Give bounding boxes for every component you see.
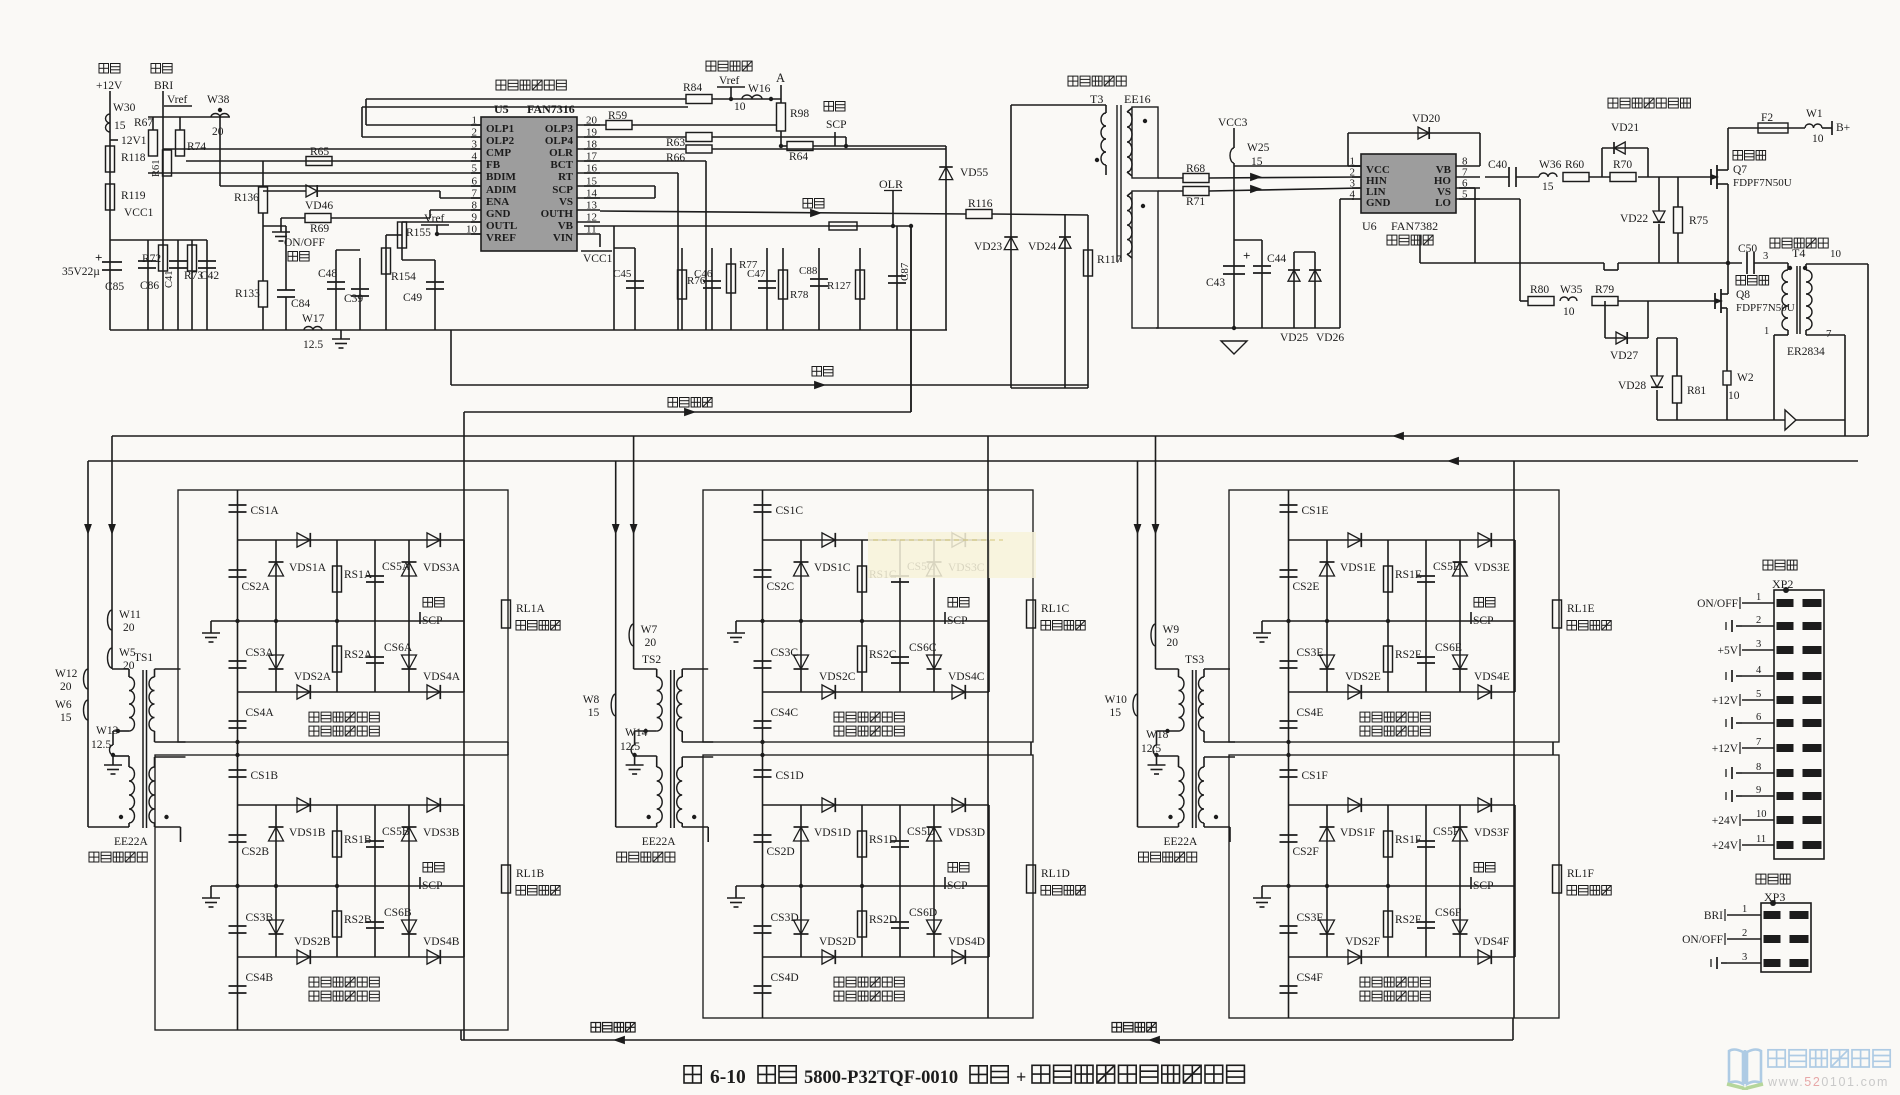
svg-text:W10: W10 (1105, 694, 1128, 706)
svg-text:R84: R84 (683, 82, 702, 94)
svg-text:R68: R68 (1186, 163, 1205, 175)
svg-text:VDS4E: VDS4E (1474, 671, 1510, 683)
svg-text:SCP: SCP (422, 615, 442, 627)
svg-text:T3: T3 (1090, 92, 1103, 106)
svg-text:W36: W36 (1539, 159, 1562, 171)
svg-text:W17: W17 (302, 313, 325, 325)
svg-text:C41: C41 (164, 270, 175, 288)
svg-text:10: 10 (1728, 390, 1740, 402)
svg-text:RS2C: RS2C (869, 649, 897, 661)
svg-text:VDS3F: VDS3F (1474, 827, 1509, 839)
svg-text:VDS4B: VDS4B (423, 936, 460, 948)
svg-text:SCP: SCP (1473, 615, 1493, 627)
svg-text:+12V: +12V (96, 80, 123, 92)
svg-text:12.5: 12.5 (1141, 743, 1161, 755)
svg-text:B+: B+ (1836, 122, 1850, 134)
svg-text:R133: R133 (235, 288, 260, 300)
svg-text:VDS1A: VDS1A (289, 562, 327, 574)
svg-text:VREF: VREF (486, 232, 516, 244)
svg-text:VDS3D: VDS3D (948, 827, 985, 839)
svg-text:U6: U6 (1362, 219, 1377, 233)
svg-text:W6: W6 (55, 699, 72, 711)
svg-text:VCC1: VCC1 (583, 253, 613, 265)
svg-text:VDS4D: VDS4D (948, 936, 985, 948)
svg-text:R64: R64 (789, 151, 808, 163)
svg-text:W11: W11 (119, 609, 141, 621)
svg-text:W35: W35 (1560, 284, 1583, 296)
svg-text:C84: C84 (291, 298, 310, 310)
svg-text:CS3F: CS3F (1297, 912, 1323, 924)
svg-text:5: 5 (1756, 689, 1761, 700)
svg-text:CS1E: CS1E (1302, 505, 1329, 517)
svg-text:RS1F: RS1F (1395, 834, 1421, 846)
svg-text:SCP: SCP (947, 880, 967, 892)
svg-text:EE22A: EE22A (114, 836, 149, 848)
svg-text:VD24: VD24 (1028, 241, 1056, 253)
svg-text:FAN7316: FAN7316 (527, 102, 575, 116)
svg-text:VDS1E: VDS1E (1340, 562, 1376, 574)
svg-text:VDS4F: VDS4F (1474, 936, 1509, 948)
svg-text:F2: F2 (1761, 112, 1773, 124)
svg-text:SCP: SCP (552, 184, 573, 196)
svg-text:R78: R78 (790, 289, 809, 301)
svg-text:C47: C47 (747, 268, 766, 280)
svg-text:CS2E: CS2E (1293, 581, 1320, 593)
svg-text:R70: R70 (1613, 159, 1632, 171)
svg-text:+: + (1243, 248, 1250, 263)
svg-text:C85: C85 (105, 281, 124, 293)
svg-text:T4: T4 (1792, 246, 1805, 260)
svg-text:C40: C40 (1488, 159, 1507, 171)
svg-text:C43: C43 (1206, 277, 1225, 289)
svg-text:FB: FB (486, 159, 501, 171)
svg-text:TS1: TS1 (134, 652, 153, 664)
svg-text:VDS1D: VDS1D (814, 827, 851, 839)
svg-text:2: 2 (1742, 928, 1747, 939)
svg-text:4: 4 (1756, 665, 1762, 676)
svg-text:W16: W16 (748, 83, 771, 95)
svg-text:20: 20 (123, 622, 135, 634)
svg-text:C44: C44 (1267, 253, 1286, 265)
svg-text:1: 1 (1742, 904, 1747, 915)
svg-text:CS1F: CS1F (1302, 770, 1328, 782)
svg-text:VD26: VD26 (1316, 332, 1344, 344)
svg-text:R136: R136 (234, 192, 259, 204)
svg-text:C48: C48 (318, 268, 337, 280)
svg-text:BRI: BRI (154, 80, 173, 92)
svg-text:FDPF7N50U: FDPF7N50U (1736, 302, 1795, 314)
svg-text:R79: R79 (1595, 284, 1614, 296)
svg-text:+5V: +5V (1717, 645, 1738, 657)
svg-text:15: 15 (1110, 707, 1122, 719)
svg-text:R127: R127 (827, 280, 851, 292)
svg-text:EE22A: EE22A (642, 836, 677, 848)
svg-text:Q7: Q7 (1733, 164, 1747, 176)
svg-text:OLP2: OLP2 (486, 135, 515, 147)
svg-text:R98: R98 (790, 108, 809, 120)
svg-text:W38: W38 (207, 94, 230, 106)
svg-text:CS4B: CS4B (246, 972, 274, 984)
svg-text:RS2A: RS2A (344, 649, 373, 661)
svg-text:R67: R67 (134, 117, 153, 129)
svg-text:R155: R155 (406, 227, 431, 239)
svg-text:OLP4: OLP4 (545, 135, 574, 147)
svg-text:CS1D: CS1D (776, 770, 804, 782)
svg-text:20: 20 (1167, 637, 1179, 649)
svg-text:CS6B: CS6B (384, 907, 412, 919)
svg-text:SCP: SCP (947, 615, 967, 627)
svg-text:CS2A: CS2A (242, 581, 271, 593)
svg-text:R69: R69 (310, 223, 329, 235)
svg-text:CS2C: CS2C (767, 581, 795, 593)
svg-text:VD22: VD22 (1620, 213, 1648, 225)
svg-text:W30: W30 (113, 102, 136, 114)
svg-text:CS3E: CS3E (1297, 647, 1324, 659)
svg-text:2: 2 (1756, 615, 1761, 626)
svg-text:11: 11 (1756, 834, 1766, 845)
svg-text:CS2F: CS2F (1293, 846, 1319, 858)
svg-text:CS4D: CS4D (771, 972, 799, 984)
svg-text:RT: RT (558, 171, 574, 183)
svg-text:VD20: VD20 (1412, 113, 1440, 125)
svg-text:OLR: OLR (879, 177, 903, 191)
svg-text:CS1B: CS1B (251, 770, 279, 782)
svg-text:+24V: +24V (1712, 840, 1739, 852)
svg-text:CS4F: CS4F (1297, 972, 1323, 984)
svg-text:12V1: 12V1 (121, 135, 147, 147)
svg-text:VCC3: VCC3 (1218, 117, 1248, 129)
svg-text:OLP3: OLP3 (545, 123, 574, 135)
svg-text:VDS3E: VDS3E (1474, 562, 1510, 574)
svg-text:12.5: 12.5 (303, 339, 323, 351)
svg-text:5800-P32TQF-0010: 5800-P32TQF-0010 (804, 1068, 958, 1088)
svg-text:VDS2B: VDS2B (294, 936, 331, 948)
svg-text:R80: R80 (1530, 284, 1549, 296)
svg-text:VD23: VD23 (974, 241, 1002, 253)
svg-text:GND: GND (486, 208, 511, 220)
svg-text:10: 10 (1830, 248, 1842, 260)
svg-text:VDS2A: VDS2A (294, 671, 332, 683)
svg-text:+12V: +12V (1712, 743, 1739, 755)
svg-text:SCP: SCP (1473, 880, 1493, 892)
svg-text:RL1B: RL1B (516, 868, 544, 880)
svg-text:ON/OFF: ON/OFF (1682, 934, 1723, 946)
svg-text:C87: C87 (899, 262, 911, 281)
svg-text:CS4C: CS4C (771, 707, 799, 719)
svg-text:CS6E: CS6E (1435, 642, 1462, 654)
svg-text:W12: W12 (55, 668, 78, 680)
svg-text:CS6F: CS6F (1435, 907, 1461, 919)
svg-text:R61: R61 (151, 159, 162, 177)
svg-text:RS1D: RS1D (869, 834, 897, 846)
svg-text:RL1E: RL1E (1567, 603, 1594, 615)
svg-text:R66: R66 (666, 152, 685, 164)
svg-text:www.520101.com: www.520101.com (1767, 1075, 1889, 1089)
svg-text:10: 10 (734, 101, 746, 113)
svg-text:ADIM: ADIM (486, 184, 517, 196)
svg-text:R65: R65 (310, 146, 329, 158)
svg-text:6-10: 6-10 (710, 1067, 746, 1088)
svg-text:W1: W1 (1806, 108, 1823, 120)
svg-text:20: 20 (645, 637, 657, 649)
svg-text:W2: W2 (1737, 372, 1754, 384)
svg-text:W8: W8 (583, 694, 600, 706)
svg-text:3: 3 (1742, 952, 1747, 963)
svg-text:+24V: +24V (1712, 815, 1739, 827)
svg-text:RS2F: RS2F (1395, 914, 1421, 926)
svg-text:LO: LO (1435, 197, 1451, 209)
svg-text:W7: W7 (641, 624, 658, 636)
svg-text:9: 9 (1756, 785, 1761, 796)
svg-text:+: + (95, 250, 102, 265)
svg-text:10: 10 (1563, 306, 1575, 318)
svg-text:R116: R116 (968, 198, 993, 210)
svg-text:OLR: OLR (549, 147, 574, 159)
svg-text:ER2834: ER2834 (1787, 346, 1825, 358)
svg-text:6: 6 (1756, 712, 1761, 723)
svg-text:CS1C: CS1C (776, 505, 804, 517)
svg-text:BDIM: BDIM (486, 171, 517, 183)
svg-text:SCP: SCP (826, 119, 846, 131)
svg-text:RL1A: RL1A (516, 603, 545, 615)
svg-text:VDS1B: VDS1B (289, 827, 326, 839)
svg-text:FDPF7N50U: FDPF7N50U (1733, 177, 1792, 189)
svg-text:VDS1C: VDS1C (814, 562, 851, 574)
svg-text:GND: GND (1366, 197, 1391, 209)
svg-text:VDS4A: VDS4A (423, 671, 461, 683)
svg-text:R81: R81 (1687, 385, 1706, 397)
svg-text:BCT: BCT (550, 159, 573, 171)
svg-text:Vref: Vref (424, 213, 445, 225)
svg-text:VD28: VD28 (1618, 380, 1646, 392)
svg-text:RS2B: RS2B (344, 914, 372, 926)
svg-text:ENA: ENA (486, 196, 509, 208)
svg-text:3: 3 (1756, 639, 1761, 650)
svg-text:RS1B: RS1B (344, 834, 372, 846)
svg-text:VD55: VD55 (960, 167, 988, 179)
svg-text:CS2B: CS2B (242, 846, 270, 858)
svg-text:RS1E: RS1E (1395, 569, 1422, 581)
svg-text:VDS1F: VDS1F (1340, 827, 1375, 839)
svg-text:VDS2D: VDS2D (819, 936, 856, 948)
svg-text:OLP1: OLP1 (486, 123, 514, 135)
svg-text:15: 15 (1542, 181, 1554, 193)
svg-text:C88: C88 (799, 265, 818, 277)
svg-text:EE22A: EE22A (1164, 836, 1199, 848)
svg-text:7: 7 (1756, 737, 1761, 748)
svg-text:RL1C: RL1C (1041, 603, 1069, 615)
svg-text:3: 3 (1763, 251, 1768, 262)
svg-text:35V22µ: 35V22µ (62, 266, 100, 278)
svg-text:R60: R60 (1565, 159, 1584, 171)
svg-text:BRI: BRI (1704, 910, 1723, 922)
svg-text:7: 7 (1826, 328, 1832, 340)
svg-text:1: 1 (1764, 326, 1769, 337)
svg-text:CS4A: CS4A (246, 707, 275, 719)
svg-text:VS: VS (559, 196, 573, 208)
svg-text:C39: C39 (344, 293, 363, 305)
svg-text:C42: C42 (200, 270, 219, 282)
svg-text:CS1A: CS1A (251, 505, 280, 517)
svg-text:1: 1 (1756, 592, 1761, 603)
svg-text:15: 15 (60, 712, 72, 724)
svg-text:8: 8 (1756, 762, 1761, 773)
svg-text:R119: R119 (121, 190, 146, 202)
svg-text:R75: R75 (1689, 215, 1708, 227)
svg-text:U5: U5 (494, 102, 509, 116)
svg-text:CS6D: CS6D (909, 907, 937, 919)
svg-text:VDS2E: VDS2E (1345, 671, 1381, 683)
svg-text:R154: R154 (391, 271, 416, 283)
svg-text:12.5: 12.5 (91, 739, 111, 751)
svg-text:CS4E: CS4E (1297, 707, 1324, 719)
svg-text:VIN: VIN (553, 232, 573, 244)
svg-text:RS2D: RS2D (869, 914, 897, 926)
svg-text:C45: C45 (613, 268, 632, 280)
svg-text:TS3: TS3 (1185, 654, 1204, 666)
svg-text:FAN7382: FAN7382 (1391, 219, 1438, 233)
svg-text:CMP: CMP (486, 147, 511, 159)
svg-text:20: 20 (212, 126, 224, 138)
svg-text:R74: R74 (187, 141, 206, 153)
svg-text:VCC1: VCC1 (124, 207, 154, 219)
svg-text:+: + (1016, 1067, 1026, 1087)
svg-text:W14: W14 (625, 727, 648, 739)
svg-text:A: A (776, 71, 785, 85)
svg-text:OUTL: OUTL (486, 220, 517, 232)
svg-text:OUTH: OUTH (541, 208, 574, 220)
svg-text:VD27: VD27 (1610, 350, 1638, 362)
svg-text:Vref: Vref (719, 75, 740, 87)
svg-text:RS2E: RS2E (1395, 649, 1422, 661)
svg-text:VDS2F: VDS2F (1345, 936, 1380, 948)
svg-text:CS6C: CS6C (909, 642, 937, 654)
svg-text:VDS3A: VDS3A (423, 562, 461, 574)
svg-text:R63: R63 (666, 137, 685, 149)
svg-text:+12V: +12V (1712, 695, 1739, 707)
svg-text:XP2: XP2 (1772, 577, 1793, 591)
svg-text:RL1F: RL1F (1567, 868, 1594, 880)
svg-text:R72: R72 (142, 253, 161, 265)
svg-text:VD25: VD25 (1280, 332, 1308, 344)
svg-text:RS1A: RS1A (344, 569, 373, 581)
svg-text:W9: W9 (1163, 624, 1180, 636)
svg-text:ON/OFF: ON/OFF (284, 237, 325, 249)
svg-text:VDS4C: VDS4C (948, 671, 985, 683)
svg-text:10: 10 (1812, 133, 1824, 145)
svg-text:10: 10 (1756, 809, 1767, 820)
svg-text:VD21: VD21 (1611, 122, 1639, 134)
svg-text:R117: R117 (1097, 254, 1122, 266)
svg-text:15: 15 (114, 120, 126, 132)
svg-text:R118: R118 (121, 152, 146, 164)
svg-text:R59: R59 (608, 110, 627, 122)
svg-text:VB: VB (558, 220, 574, 232)
svg-text:C49: C49 (403, 292, 422, 304)
svg-text:TS2: TS2 (642, 654, 661, 666)
svg-text:EE16: EE16 (1124, 92, 1151, 106)
svg-text:VDS3B: VDS3B (423, 827, 460, 839)
svg-text:W25: W25 (1247, 142, 1270, 154)
svg-text:R71: R71 (1186, 196, 1205, 208)
svg-text:C46: C46 (694, 268, 713, 280)
svg-text:VD46: VD46 (305, 200, 333, 212)
svg-text:20: 20 (60, 681, 72, 693)
svg-text:12.5: 12.5 (620, 741, 640, 753)
svg-text:C86: C86 (140, 280, 159, 292)
svg-text:Vref: Vref (167, 94, 188, 106)
svg-text:ON/OFF: ON/OFF (1697, 598, 1738, 610)
svg-text:VDS2C: VDS2C (819, 671, 856, 683)
svg-text:Q8: Q8 (1736, 289, 1750, 301)
svg-text:15: 15 (588, 707, 600, 719)
svg-text:SCP: SCP (422, 880, 442, 892)
svg-text:CS2D: CS2D (767, 846, 795, 858)
svg-text:RL1D: RL1D (1041, 868, 1070, 880)
